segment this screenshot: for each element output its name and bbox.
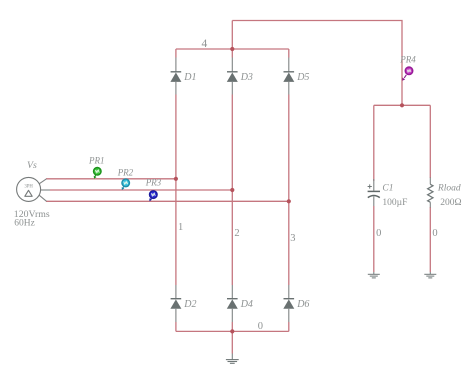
svg-text:4: 4	[202, 38, 208, 50]
junction at bottom bus node 0	[230, 329, 234, 333]
svg-text:Vs: Vs	[27, 160, 37, 171]
ground under Rload	[424, 272, 436, 278]
svg-text:PR3: PR3	[145, 177, 162, 187]
junction at top bus node 4	[230, 47, 234, 51]
wire: vertical D1/D2 column (net 1)	[175, 49, 177, 58]
svg-text:1: 1	[178, 222, 183, 233]
probe PR4	[402, 67, 413, 81]
wire: Rload branch vertical	[429, 105, 431, 178]
wire: bottom bus node 0	[176, 330, 289, 332]
ground under bottom bus	[226, 354, 239, 364]
svg-text:0: 0	[432, 228, 437, 239]
svg-text:Rload: Rload	[437, 184, 461, 194]
diode D3	[227, 58, 238, 95]
junction at load T	[400, 103, 404, 107]
wire: vertical D5/D6 column (net 3)	[288, 49, 290, 58]
wire: phase B horizontal from source to D3 column	[50, 189, 232, 191]
svg-text:D1: D1	[183, 72, 196, 83]
ground under C1	[368, 272, 380, 278]
junction at phase B / net 2	[230, 188, 234, 192]
svg-text:PR1: PR1	[88, 156, 105, 166]
svg-text:60Hz: 60Hz	[14, 219, 35, 229]
svg-text:PR2: PR2	[117, 167, 134, 177]
svg-text:D5: D5	[296, 72, 309, 83]
wire: ground stem from bottom bus	[231, 331, 233, 353]
svg-text:200Ω: 200Ω	[440, 198, 461, 208]
probe PR1	[94, 168, 102, 179]
wire: vertical D3/D4 column (net 2)	[231, 21, 233, 58]
junction at phase C / net 3	[287, 199, 291, 203]
resistor Rload	[428, 178, 433, 208]
wire: top bus node 4	[176, 48, 289, 50]
svg-text:C1: C1	[382, 184, 393, 194]
svg-text:D3: D3	[240, 72, 253, 83]
junction at phase A / net 1	[174, 177, 178, 181]
capacitor C1	[368, 179, 380, 206]
svg-text:D2: D2	[183, 299, 196, 310]
svg-text:PR4: PR4	[399, 54, 416, 64]
wire: load T bar	[374, 104, 431, 106]
svg-text:D6: D6	[296, 299, 309, 310]
probe PR3	[149, 191, 157, 202]
svg-text:3PH: 3PH	[24, 185, 33, 190]
wire: phase C horizontal from source to D5 column	[46, 200, 289, 202]
svg-text:0: 0	[376, 228, 381, 239]
diode D6	[283, 285, 294, 322]
three-phase source Vs	[17, 177, 50, 201]
svg-text:2: 2	[234, 228, 239, 239]
wire: C1 branch vertical	[373, 105, 375, 181]
diode D4	[227, 285, 238, 322]
diode D1	[170, 58, 181, 95]
svg-text:100µF: 100µF	[382, 198, 407, 208]
wire: top run from node 4 to load	[232, 21, 402, 106]
svg-text:3: 3	[290, 233, 295, 244]
diode D5	[283, 58, 294, 95]
probe PR2	[122, 179, 130, 190]
svg-text:0: 0	[258, 321, 263, 332]
diode D2	[170, 285, 181, 322]
svg-text:D4: D4	[240, 299, 253, 310]
wire: phase A horizontal from source to D1 column	[46, 178, 176, 180]
